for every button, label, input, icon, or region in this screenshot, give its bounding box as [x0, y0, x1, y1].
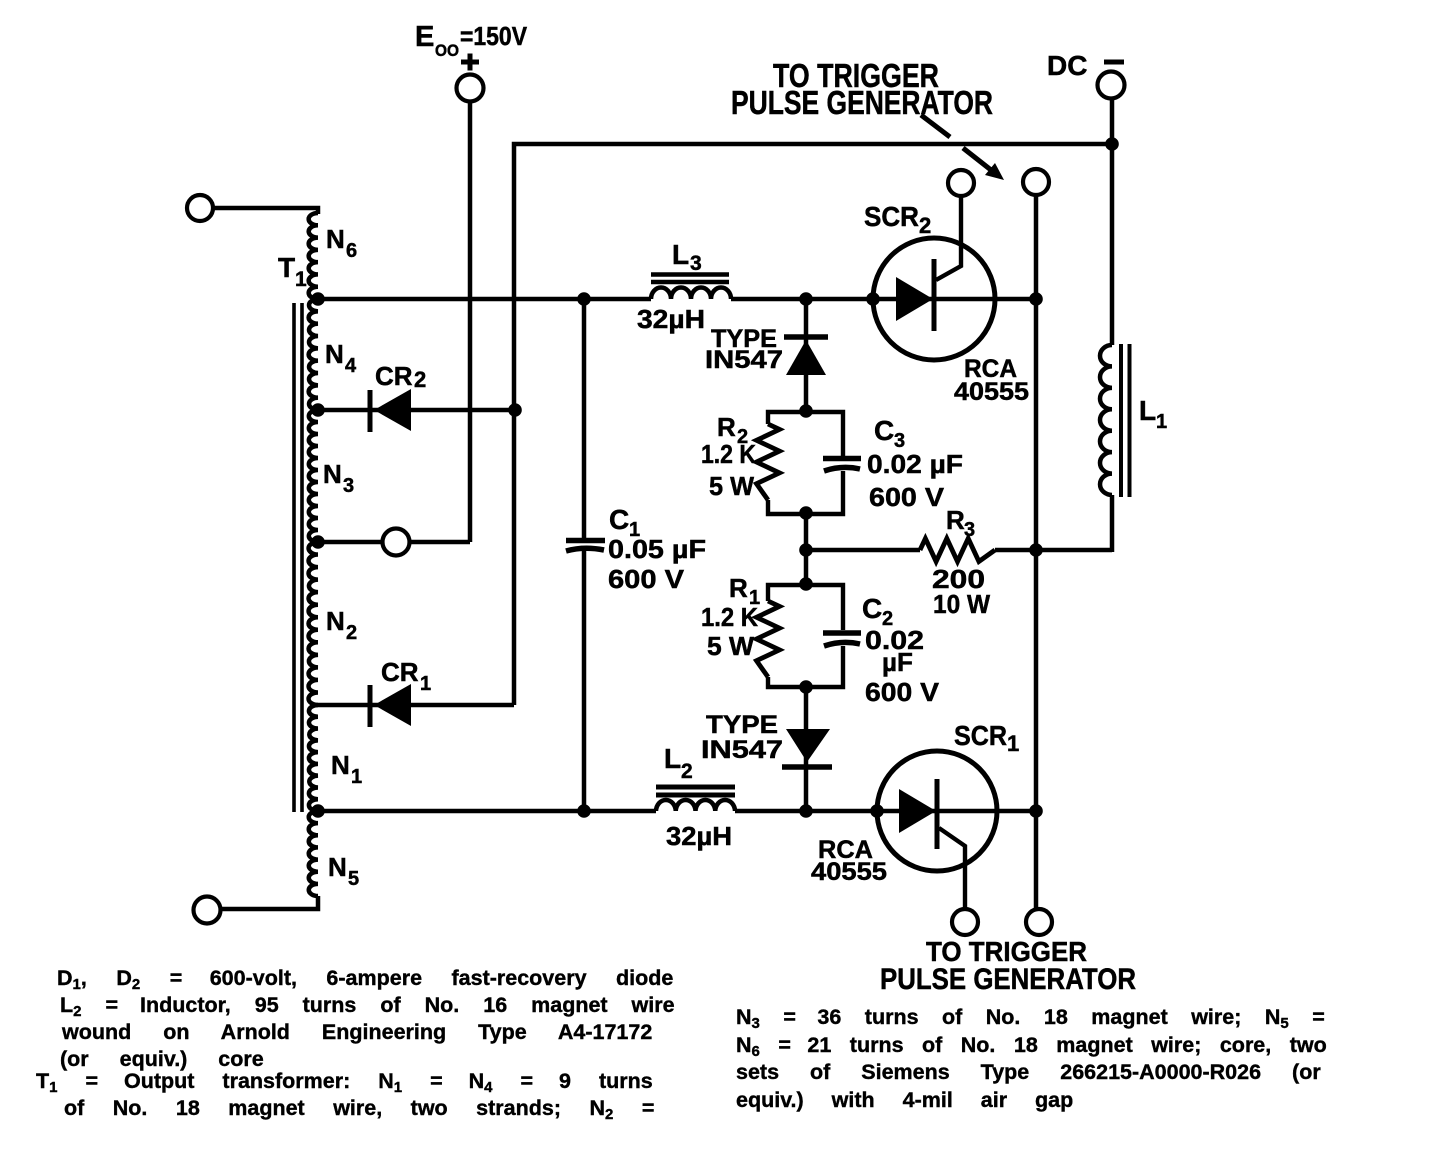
terminal: E_oo supply [457, 75, 484, 102]
svg-text:IN547: IN547 [705, 346, 783, 374]
svg-text:C: C [862, 593, 882, 624]
junction: R3 right / common line [1029, 543, 1043, 557]
wire: main upper horizontal bus (T1 top tap to SCR2 and common line) [318, 297, 651, 302]
svg-text:32µH: 32µH [637, 304, 705, 334]
junction: R2C3 bottom node [799, 506, 813, 520]
junction: SCR2 anode [866, 292, 880, 306]
capacitor C3 0.02uF 600V [823, 456, 861, 462]
svg-text:5: 5 [348, 868, 359, 890]
junction: SCR2 cathode / common line [1029, 292, 1043, 306]
svg-text:1: 1 [351, 766, 362, 788]
terminal: bottom-left output [194, 897, 221, 924]
legend right block [736, 1003, 1336, 1005]
wire: stem between R2/C3 and R1/C2 with R3 tap [804, 514, 809, 585]
legend left block [36, 964, 681, 966]
junction: 1N547 branch bottom [799, 804, 813, 818]
wire: CR2 tap [318, 408, 514, 413]
wire: top bus from vertical riser to DC junction [514, 144, 1112, 705]
svg-text:SCR: SCR [954, 720, 1007, 751]
svg-text:L: L [664, 743, 681, 774]
wire: DC negative lead down to L1 [1110, 99, 1115, 345]
svg-text:N: N [328, 852, 347, 882]
junction: T1 N4-N3 tap [311, 403, 325, 417]
svg-text:2: 2 [919, 213, 931, 238]
svg-text:600 V: 600 V [869, 482, 945, 512]
svg-text:IN547: IN547 [701, 736, 783, 764]
junction: C1 top [577, 292, 591, 306]
junction: R3 left node [799, 543, 813, 557]
inductor L2 32uH [656, 800, 735, 811]
transformer T1 core [292, 303, 296, 812]
svg-text:N: N [326, 224, 345, 254]
svg-text:1: 1 [420, 673, 431, 695]
svg-text:TYPE: TYPE [706, 711, 778, 739]
svg-text:40555: 40555 [811, 858, 887, 886]
resistor R1 1.2K 5W [757, 601, 780, 677]
svg-text:3: 3 [964, 519, 975, 541]
svg-text:2: 2 [414, 367, 426, 392]
svg-text:=150V: =150V [460, 21, 528, 51]
wire: E_oo center-tap lead with inline terminal [318, 540, 470, 545]
junction: R2C3 top node [799, 404, 813, 418]
svg-text:3: 3 [343, 475, 354, 497]
resistor R2 1.2K 5W [757, 424, 780, 500]
svg-text:N: N [331, 750, 350, 780]
svg-text:CR: CR [375, 361, 413, 391]
svg-text:OO: OO [435, 41, 459, 60]
svg-text:600 V: 600 V [608, 564, 685, 594]
svg-text:5 W: 5 W [709, 471, 754, 501]
svg-text:2: 2 [681, 760, 693, 783]
arrow to trigger terminals [921, 115, 950, 137]
svg-text:DC: DC [1047, 50, 1087, 81]
wire: stem to lower 1N547 diode [804, 687, 809, 811]
resistor R3 200 10W [920, 539, 995, 562]
svg-text:SCR: SCR [864, 201, 919, 232]
svg-text:32µH: 32µH [666, 821, 732, 851]
diode TYPE 1N547 (lower, pointing down) [786, 729, 830, 762]
svg-text:N: N [323, 459, 342, 489]
junction: R1C2 top node [799, 577, 813, 591]
svg-text:4: 4 [345, 355, 357, 377]
wire: R3 row from middle column to L1 bottom [806, 548, 920, 553]
svg-text:1.2 K: 1.2 K [701, 439, 756, 469]
junction: CR2 cathode / riser [508, 403, 522, 417]
svg-text:R: R [946, 505, 965, 535]
svg-text:µF: µF [882, 647, 913, 677]
svg-text:C: C [874, 415, 894, 446]
svg-text:PULSE GENERATOR: PULSE GENERATOR [880, 963, 1136, 996]
svg-text:5 W: 5 W [707, 631, 754, 661]
wire: right common vertical line [1034, 196, 1039, 908]
svg-text:0.02 µF: 0.02 µF [867, 449, 963, 479]
SCR2 [873, 238, 995, 360]
svg-text:1: 1 [295, 268, 307, 291]
transformer T1 winding (N6,N4,N3,N2,N1,N5) [309, 213, 318, 299]
diode TYPE 1N547 (upper, pointing up) [784, 334, 828, 340]
svg-text:L: L [672, 239, 689, 270]
inductor L3 32uH [651, 288, 731, 300]
terminal: top-left input [187, 195, 213, 221]
wire: L1 bottom to R3 row [1110, 495, 1115, 552]
terminal: inline circle on center-tap [383, 529, 410, 556]
svg-text:CR: CR [381, 657, 419, 687]
terminal: bottom common [1026, 909, 1052, 935]
svg-text:1: 1 [1156, 411, 1167, 433]
junction: C1 bottom [577, 804, 591, 818]
svg-text:E: E [415, 21, 434, 53]
wire: top-left input terminal lead [214, 208, 318, 214]
capacitor C1 0.05uF 600V [582, 299, 587, 538]
diode CR1 [368, 685, 373, 727]
capacitor C2 0.02uF 600V [823, 630, 861, 636]
wire: bottom bus (T1 bottom tap to SCR1) [318, 809, 656, 814]
svg-text:R: R [729, 573, 748, 603]
inductor L1 [1100, 345, 1112, 495]
junction: DC line / top bus [1105, 137, 1119, 151]
terminal: SCR2 gate [948, 170, 974, 196]
junction: SCR1 anode [870, 804, 884, 818]
svg-text:600 V: 600 V [865, 677, 940, 707]
svg-text:R: R [717, 412, 736, 442]
svg-text:1.2 K: 1.2 K [701, 602, 758, 632]
svg-text:2: 2 [346, 622, 357, 644]
svg-text:40555: 40555 [954, 378, 1029, 406]
R2/C3 parallel network bracket [768, 412, 843, 456]
wire: CR1 tap [318, 703, 514, 708]
svg-text:0.05 µF: 0.05 µF [608, 534, 706, 564]
svg-text:T: T [278, 252, 295, 283]
svg-text:C: C [609, 504, 629, 535]
junction: R1C2 bottom node [799, 680, 813, 694]
junction: T1 top tap / bus [311, 292, 325, 306]
svg-text:N: N [325, 339, 344, 369]
junction: 1N547 branch top [799, 292, 813, 306]
diode CR2 [368, 390, 373, 432]
junction: SCR1 cathode / common line [1029, 804, 1043, 818]
svg-text:3: 3 [690, 252, 702, 275]
terminal: top common [1023, 169, 1049, 195]
svg-text:1: 1 [1007, 731, 1019, 756]
R1/C2 parallel network bracket [768, 585, 843, 630]
svg-text:PULSE GENERATOR: PULSE GENERATOR [731, 84, 993, 121]
svg-text:6: 6 [346, 240, 357, 262]
terminal: DC minus [1098, 72, 1125, 99]
junction: T1 center tap [311, 535, 325, 549]
svg-text:L: L [1139, 395, 1156, 426]
terminal: SCR1 gate [952, 909, 978, 935]
wire: bottom-left output lead from N5 [221, 896, 318, 909]
SCR1 [877, 751, 997, 871]
svg-text:10 W: 10 W [933, 589, 990, 619]
svg-text:N: N [326, 606, 345, 636]
junction: T1 bottom tap [311, 804, 325, 818]
middle column: stem from bus to 1N547 top diode [804, 299, 809, 411]
